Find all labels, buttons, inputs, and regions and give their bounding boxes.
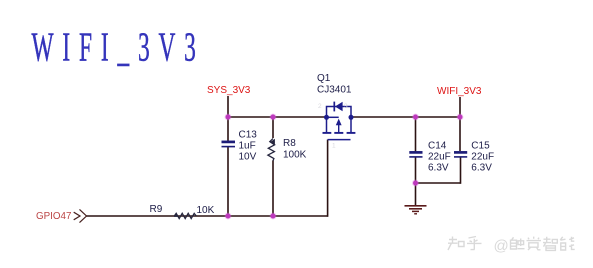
wire bottom right rail xyxy=(416,182,461,184)
junction C13 bottom xyxy=(225,213,232,220)
svg-text:Q1: Q1 xyxy=(317,73,331,84)
transistor Q1 xyxy=(323,102,356,140)
net label WIFI_3V3 xyxy=(437,86,482,97)
wire SYS_3V3 stub xyxy=(227,96,229,117)
wire gate vertical xyxy=(327,140,329,217)
drain pin dot xyxy=(349,115,354,120)
wire ground stub xyxy=(415,183,417,206)
svg-text:@: @ xyxy=(494,238,509,255)
svg-text:R8: R8 xyxy=(283,138,296,149)
svg-text:WIFI_3V3: WIFI_3V3 xyxy=(32,25,205,70)
svg-text:22uF: 22uF xyxy=(471,152,494,163)
svg-text:C15: C15 xyxy=(471,141,490,152)
svg-text:R9: R9 xyxy=(150,204,163,215)
resistor R8 xyxy=(268,139,275,161)
capacitor C13 xyxy=(222,142,236,147)
capacitor C15 xyxy=(454,152,467,157)
svg-text:C14: C14 xyxy=(428,141,447,152)
svg-text:CJ3401: CJ3401 xyxy=(317,85,352,96)
wire top rail source side xyxy=(228,116,327,118)
substrate arrow xyxy=(327,116,339,118)
junction ground xyxy=(412,180,419,187)
source channel leg xyxy=(326,117,328,132)
title WIFI_3V3 xyxy=(32,25,205,70)
body diode bracket xyxy=(327,107,352,118)
gate plate xyxy=(328,139,351,141)
svg-text:1uF: 1uF xyxy=(239,141,256,152)
wire R8 branch xyxy=(272,117,274,216)
drain channel leg xyxy=(350,117,352,132)
svg-text:22uF: 22uF xyxy=(428,152,451,163)
junction WIFI_3V3/C15 top xyxy=(457,114,464,121)
wire C15 branch xyxy=(459,117,462,184)
svg-text:C13: C13 xyxy=(239,130,258,141)
wire WIFI_3V3 stub xyxy=(459,97,461,117)
wire bottom rail xyxy=(86,215,328,217)
svg-text:10V: 10V xyxy=(239,152,257,163)
resistor R9 xyxy=(174,213,196,219)
svg-text:10K: 10K xyxy=(197,205,215,216)
body diode xyxy=(333,102,335,112)
ground xyxy=(405,206,427,214)
junction R8 top xyxy=(270,114,277,121)
junction SYS_3V3/C13 top xyxy=(225,114,232,121)
svg-text:6.3V: 6.3V xyxy=(428,163,449,174)
svg-text:WIFI_3V3: WIFI_3V3 xyxy=(437,86,482,97)
junction R8 bottom xyxy=(270,213,277,220)
capacitor C14 xyxy=(409,152,422,157)
wire C14 branch xyxy=(415,117,417,183)
port GPIO47 xyxy=(36,209,87,222)
svg-text:1: 1 xyxy=(332,143,336,150)
watermark 知乎 @触觉智能 xyxy=(448,237,575,251)
net label SYS_3V3 xyxy=(207,85,251,96)
junction C14 top xyxy=(412,114,419,121)
svg-text:SYS_3V3: SYS_3V3 xyxy=(207,85,251,96)
svg-text:GPIO47: GPIO47 xyxy=(36,211,71,222)
svg-text:3: 3 xyxy=(344,103,348,110)
svg-text:100K: 100K xyxy=(283,149,307,160)
wire C13 branch xyxy=(227,117,229,216)
svg-text:6.3V: 6.3V xyxy=(471,163,492,174)
svg-text:2: 2 xyxy=(318,103,322,110)
wire top rail drain side xyxy=(351,116,460,118)
source pin dot xyxy=(324,115,329,120)
